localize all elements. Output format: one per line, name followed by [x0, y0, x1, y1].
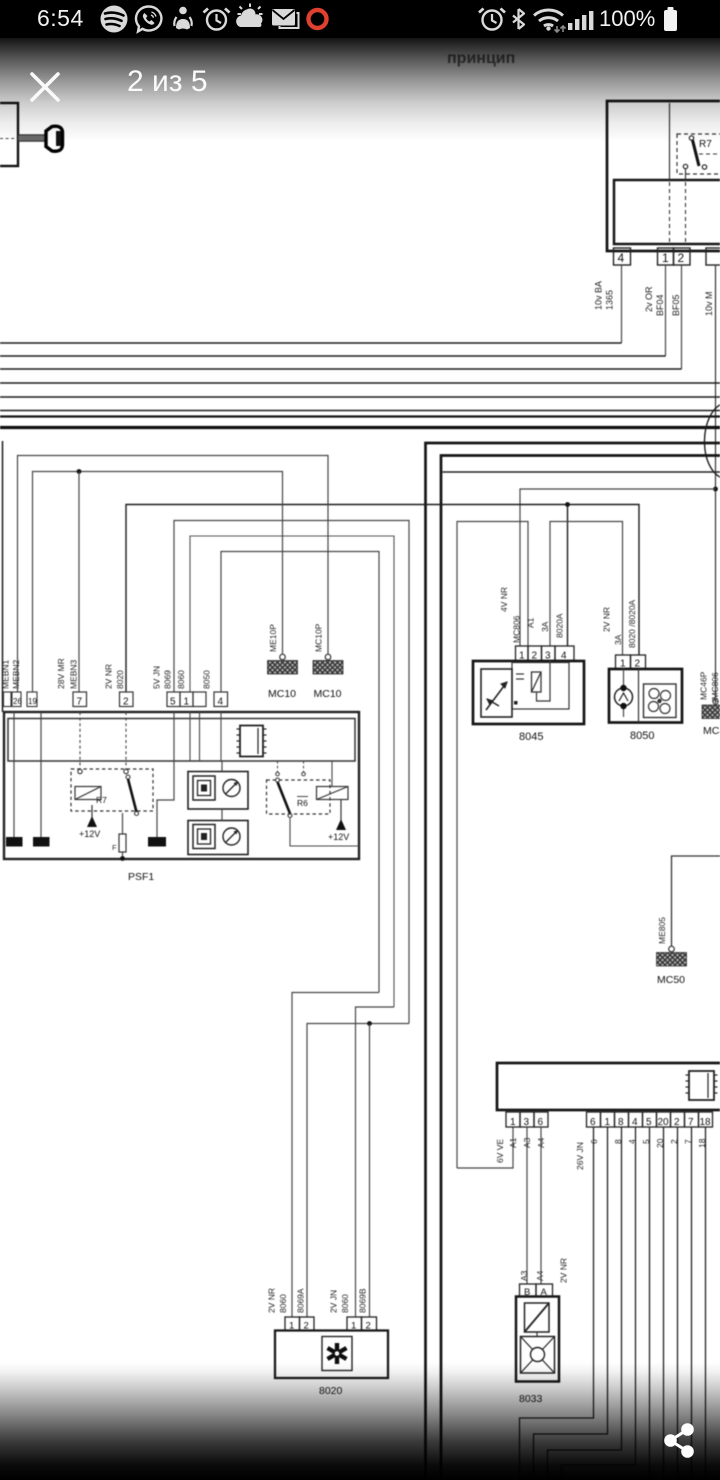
- 8045 internal wire pin3: [537, 661, 551, 702]
- 8050 pin 1: [616, 655, 631, 669]
- svg-text:1: 1: [605, 1117, 611, 1128]
- wire BSI A4 to 8033 pin A: [540, 1127, 542, 1284]
- svg-text:1: 1: [662, 251, 669, 265]
- 8033 pin A: [536, 1284, 553, 1297]
- wire B5: [649, 1127, 651, 1480]
- relay R7 contact circles: [689, 136, 693, 140]
- svg-text:MEBN1: MEBN1: [1, 659, 11, 689]
- pin 1 of relay unit: [658, 248, 674, 265]
- bus wire 3: [0, 368, 682, 370]
- svg-text:A3: A3: [519, 1270, 529, 1281]
- svg-text:2V NR: 2V NR: [559, 1258, 569, 1283]
- svg-text:2V NR: 2V NR: [104, 664, 114, 689]
- svg-text:+12V: +12V: [79, 829, 100, 839]
- svg-text:8060: 8060: [176, 670, 186, 689]
- wire net PSF1 pin4 down-right: [221, 552, 379, 993]
- BSI pin A3: [520, 1112, 534, 1127]
- svg-text:8020: 8020: [319, 1385, 343, 1397]
- battery icon: [664, 7, 677, 31]
- wire branch to 8020 pin R2: [369, 1024, 371, 1318]
- PSF1 internal dashed pin2 link: [125, 712, 127, 769]
- fuse F: [112, 813, 126, 858]
- svg-text:/MC806: /MC806: [710, 672, 720, 702]
- PSF1 terminal bar 1: [6, 837, 23, 847]
- svg-text:+12V: +12V: [328, 832, 349, 842]
- 8045 pin1 internal stub: [516, 673, 524, 675]
- svg-text:6V VE: 6V VE: [495, 1139, 505, 1163]
- svg-text:MEBN3: MEBN3: [69, 659, 79, 689]
- wire pin1 down: [665, 265, 667, 356]
- svg-text:A1: A1: [526, 617, 536, 628]
- PSF1 IC chip: [237, 726, 267, 757]
- thick feed wire L2: [441, 456, 720, 1480]
- 8020 snowflake symbol: [328, 1343, 347, 1364]
- svg-text:MC806: MC806: [512, 615, 522, 643]
- svg-text:8020: 8020: [115, 670, 125, 689]
- svg-text:4: 4: [632, 1117, 638, 1128]
- svg-text:4: 4: [218, 697, 224, 708]
- svg-text:MC10P: MC10P: [314, 623, 324, 652]
- svg-text:5: 5: [646, 1117, 652, 1128]
- dashed internal pin link 1: [669, 182, 671, 243]
- svg-text:8020 /8020A: 8020 /8020A: [627, 599, 637, 648]
- svg-text:2: 2: [123, 697, 129, 708]
- wire relay feed: [669, 103, 671, 180]
- left edge black wire to PSF1: [2, 441, 4, 712]
- 8020 pin R1: [347, 1317, 362, 1331]
- wire to MC50 ground: [672, 856, 720, 946]
- PSF1 internal dashed pin7 link: [79, 712, 81, 769]
- junction dot 8045 pin4 branch: [565, 502, 570, 507]
- svg-text:10v BA: 10v BA: [594, 281, 604, 310]
- 8045 pin 2: [528, 646, 542, 661]
- PSF1 pin 19: [27, 692, 37, 707]
- wire driver upper to lower: [221, 809, 223, 821]
- svg-text:28V MR: 28V MR: [56, 658, 66, 689]
- PSF1 pin 1: [180, 692, 193, 707]
- 8020 pin L1: [285, 1317, 300, 1331]
- wire BSI pin A1 jog: [457, 1127, 513, 1168]
- staircase wire B4: [562, 1127, 636, 1480]
- wire B8: [691, 1127, 693, 1480]
- wire jog to 8020 pin R1: [356, 1007, 395, 1317]
- relay R7 of PSF1 dashed outline: [71, 769, 153, 811]
- 8020 box: [275, 1331, 388, 1379]
- svg-text:26: 26: [13, 697, 22, 706]
- bus wire 2: [0, 355, 666, 357]
- svg-text:7: 7: [688, 1117, 694, 1128]
- relay R7 switch arm: [693, 140, 700, 166]
- junction dot PSF1 pin7 branch: [77, 469, 82, 474]
- 8045 thermistor: [532, 672, 542, 692]
- svg-text:3A: 3A: [613, 634, 623, 645]
- svg-text:принцип: принцип: [447, 50, 515, 67]
- wire B6: [663, 1127, 665, 1480]
- 8050 fan blades: [649, 689, 671, 714]
- wire branch PSF1 pin7: [78, 472, 80, 693]
- relay R7 PSF1 coil: [75, 787, 101, 800]
- svg-text:MEBN2: MEBN2: [11, 659, 21, 689]
- svg-text:ME10P: ME10P: [268, 624, 278, 652]
- R6 coil: [317, 787, 349, 800]
- person icon: [174, 7, 192, 30]
- 8020 pin R2: [362, 1317, 377, 1331]
- close button X: [28, 70, 62, 104]
- 8045 sensor box: [481, 669, 512, 717]
- 8045 pin 3: [542, 646, 556, 661]
- svg-text:R6: R6: [297, 798, 308, 808]
- svg-text:7: 7: [77, 697, 83, 708]
- svg-text:2: 2: [674, 1117, 680, 1128]
- relay R6 dashed outline: [267, 780, 331, 814]
- svg-text:8033: 8033: [519, 1393, 543, 1405]
- 8050 fan box: [644, 684, 677, 718]
- PSF1 inner band: [8, 719, 355, 762]
- PSF1 pin 26: [4, 692, 12, 707]
- PSF1 terminal bar 2: [33, 837, 50, 847]
- wire pin4 into band: [220, 712, 222, 761]
- BSI IC chip: [686, 1071, 718, 1100]
- svg-text:MC10: MC10: [268, 688, 296, 700]
- PSF1 box: [4, 712, 359, 859]
- wire PSF1 small pin to ME10P ground: [33, 472, 283, 693]
- svg-text:18: 18: [700, 1117, 712, 1128]
- svg-text:2V NR: 2V NR: [267, 1288, 277, 1313]
- PSF1 pin 7: [73, 692, 87, 707]
- relay unit R7 outer box (screen-cut right): [607, 101, 720, 251]
- 8033 box: [516, 1297, 559, 1382]
- junction dot on MC806 wire: [713, 487, 718, 492]
- +12V supply left: [79, 805, 100, 839]
- 8033 lamp box: [521, 1337, 555, 1374]
- wire bridge 8045 pin3 to 8050 pin1: [550, 522, 623, 656]
- svg-text:8069A: 8069A: [296, 1288, 306, 1313]
- bus wire 8 thick: [0, 426, 720, 429]
- svg-text:BF05: BF05: [671, 294, 681, 316]
- wire net PSF1 pin5 down-right: [174, 521, 409, 1024]
- svg-text:19: 19: [28, 697, 37, 706]
- 8033 thermistor: [525, 1303, 550, 1332]
- svg-text:20: 20: [658, 1117, 670, 1128]
- pin 4 of relay unit: [614, 248, 631, 265]
- bottom gradient scrim: [0, 1362, 720, 1480]
- 8045 inner sub-box: [512, 663, 569, 710]
- staircase wire B3: [548, 1127, 622, 1480]
- 8033 pin B: [520, 1284, 537, 1297]
- svg-text:A4: A4: [535, 1270, 545, 1281]
- signal bars: [568, 11, 593, 30]
- bus wire 6: [0, 410, 720, 412]
- svg-text:MC4: MC4: [703, 725, 720, 737]
- svg-text:2V JN: 2V JN: [329, 1290, 339, 1313]
- top gradient scrim: [0, 38, 720, 142]
- MC50 ground: [657, 917, 687, 986]
- svg-text:1365: 1365: [605, 290, 615, 310]
- wire jog to 8020 pin L2: [307, 1024, 409, 1318]
- ignition switch box (screen-cut left): [0, 103, 18, 166]
- wire branch to 8045 pin4: [567, 505, 569, 647]
- status bar: [0, 0, 720, 38]
- PSF1 internal wire to bar 1: [13, 712, 15, 837]
- svg-text:MC46P: MC46P: [699, 671, 709, 700]
- wire net PSF1 pin2 to 8050 pin2: [126, 505, 639, 693]
- svg-text:BF04: BF04: [655, 294, 665, 316]
- svg-text:5V JN: 5V JN: [152, 666, 162, 689]
- svg-text:6: 6: [590, 1117, 596, 1128]
- svg-text:R7: R7: [699, 139, 712, 150]
- record icon red circle: [309, 10, 327, 28]
- dashed internal pin link 2: [685, 182, 687, 243]
- 8045 internal dot: [514, 701, 518, 705]
- svg-text:4: 4: [618, 251, 625, 265]
- wire net 8045 pin1 to MC806: [520, 489, 716, 646]
- dashed link inside ignition box: [0, 138, 16, 140]
- svg-text:8060: 8060: [278, 1294, 288, 1313]
- staircase wire B2: [534, 1127, 608, 1480]
- pin 3 of relay unit (screen-cut): [706, 248, 720, 265]
- wire PSF1 small pin to MC10P ground: [18, 456, 329, 693]
- 8050 pin 2: [631, 655, 646, 669]
- BSI pin group B: [587, 1112, 713, 1128]
- svg-text:2V NR: 2V NR: [602, 607, 612, 632]
- wire pin3 long down to MC806 ground: [715, 265, 717, 703]
- relay R7 dashed outline: [677, 134, 720, 174]
- svg-text:10v M: 10v M: [704, 291, 714, 316]
- ME10P ground: [268, 624, 298, 700]
- svg-text:PSF1: PSF1: [128, 871, 154, 883]
- svg-text:1: 1: [184, 697, 190, 708]
- svg-text:26V JN: 26V JN: [575, 1142, 585, 1170]
- svg-text:6: 6: [538, 1117, 544, 1128]
- svg-text:ME805: ME805: [657, 917, 667, 944]
- wire bridge BSI A1 to 8045 pin2: [457, 522, 528, 1169]
- 8033 wire thermistor to lamp: [536, 1332, 538, 1337]
- svg-text:8: 8: [618, 1117, 624, 1128]
- 8050 labels: [602, 599, 638, 648]
- alarm clock icon right: [479, 9, 505, 30]
- weather icon: [236, 4, 262, 28]
- svg-text:8020A: 8020A: [555, 613, 565, 638]
- 8033 labels: [519, 1258, 569, 1283]
- 8050 box: [609, 669, 682, 723]
- svg-text:1: 1: [510, 1117, 516, 1128]
- wire R6 to PSF1 edge: [290, 818, 359, 847]
- relay unit inner connector box: [614, 180, 720, 244]
- wire pin2 down: [681, 265, 683, 369]
- R6 pickup circles: [276, 772, 280, 776]
- share icon: [660, 1418, 700, 1458]
- wire jog to 8020 pin L1: [292, 993, 379, 1318]
- PSF1 terminal bar 3: [148, 837, 166, 847]
- wire B9: [705, 1127, 707, 1480]
- 8045 box: [473, 661, 584, 724]
- BSI pin A4: [534, 1112, 548, 1127]
- wire B7: [677, 1127, 679, 1480]
- svg-text:8069B: 8069B: [358, 1288, 368, 1313]
- svg-text:MC10: MC10: [314, 688, 342, 700]
- wire band to driver upper: [221, 761, 223, 772]
- wifi icon: [534, 10, 566, 32]
- 8050 divider: [638, 669, 640, 723]
- key symbol: [18, 126, 63, 151]
- relay R7 PSF1 switch: [128, 779, 137, 812]
- page counter: [127, 65, 208, 99]
- BSI labels: [495, 1137, 707, 1170]
- +12V supply right: [328, 800, 349, 843]
- svg-text:F: F: [112, 843, 117, 852]
- viber icon: [136, 6, 161, 31]
- driver module lower: [188, 821, 248, 855]
- PSF1 internal pin5 wire: [157, 712, 174, 837]
- wire band to R6 coil: [331, 761, 333, 787]
- 8050 motor symbol: [615, 669, 633, 717]
- bus wire 5: [0, 396, 720, 398]
- svg-text:A1: A1: [508, 1137, 518, 1148]
- svg-text:5: 5: [170, 697, 176, 708]
- 8020 compressor square: [322, 1337, 352, 1371]
- junction dot fuse to PSF1 edge: [120, 856, 125, 861]
- bus wire 1: [0, 342, 622, 344]
- MC806 ground: [702, 699, 720, 737]
- PSF1 internal wire to bar 2: [40, 712, 42, 837]
- pin 2 of relay unit: [674, 248, 691, 265]
- PSF1 pin 5: [167, 692, 180, 707]
- PSF1 pin b: [12, 692, 21, 707]
- PSF1 pin 2: [120, 692, 134, 707]
- svg-text:3A: 3A: [540, 621, 550, 632]
- bus wire 4: [0, 382, 720, 384]
- svg-text:MC50: MC50: [657, 974, 685, 986]
- PSF1 pin 4: [214, 692, 228, 707]
- PSF1 pin blank: [193, 692, 206, 707]
- 8045 pin 4: [555, 646, 574, 661]
- svg-text:4V NR: 4V NR: [499, 587, 509, 612]
- spotify icon: [101, 6, 128, 33]
- 8020 labels: [267, 1288, 368, 1313]
- wire pins 1/blank into band: [189, 712, 191, 761]
- 8045 labels: [499, 587, 565, 643]
- alarm clock icon left: [204, 9, 230, 30]
- BSI connector box: [497, 1063, 720, 1110]
- wire net y472: [443, 471, 720, 473]
- svg-text:2: 2: [678, 251, 685, 265]
- wire pin4 down: [621, 265, 623, 343]
- loop wire at right screen edge: [704, 403, 720, 479]
- svg-text:3: 3: [524, 1117, 530, 1128]
- svg-text:8050: 8050: [630, 730, 654, 742]
- 8045 sensor arrow symbol: [486, 682, 507, 710]
- svg-text:2v OR: 2v OR: [644, 286, 654, 312]
- BSI pin A1: [506, 1112, 520, 1127]
- driver module upper: [188, 772, 248, 810]
- bluetooth icon: [513, 9, 524, 29]
- MC10P ground: [313, 623, 343, 700]
- junction dot on 8020 wire: [367, 1021, 372, 1026]
- wire BSI A3 to 8033 pin B: [526, 1127, 528, 1284]
- staircase wire B1: [520, 1127, 594, 1480]
- wire relay contact to connector: [685, 169, 687, 181]
- wire net PSF1 pin1 down-right: [190, 536, 394, 1007]
- PSF1 labels row: [1, 658, 212, 689]
- svg-text:8045: 8045: [519, 731, 543, 743]
- thick feed wire L1: [426, 443, 720, 1480]
- 8020 pin L2: [300, 1317, 315, 1331]
- mail icon: [272, 9, 299, 28]
- 8045 pin 1: [516, 646, 529, 661]
- relay R6 switch: [278, 782, 291, 814]
- svg-text:8069: 8069: [163, 670, 173, 689]
- svg-text:8060: 8060: [340, 1294, 350, 1313]
- relay R7 dashed common line: [699, 153, 720, 155]
- bus wire 7: [0, 415, 720, 417]
- svg-text:8050: 8050: [202, 670, 212, 689]
